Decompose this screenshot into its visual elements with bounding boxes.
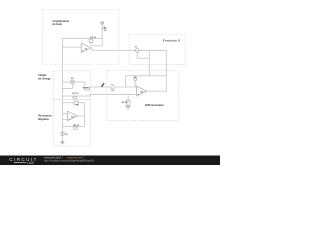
dashed enclosure box Differenciateur <box>107 70 178 120</box>
watermark line1 username <box>44 156 95 162</box>
resistor R2 <box>89 39 92 42</box>
resistor R7 <box>126 100 130 105</box>
label V3 <box>65 134 68 136</box>
logo CIRCUIT <box>9 157 37 162</box>
label C2 <box>76 105 80 107</box>
watermark bar <box>0 156 220 166</box>
label V2 <box>71 78 74 80</box>
wire top frame <box>126 75 167 77</box>
label V1 <box>135 46 138 48</box>
wire bus vertical <box>61 38 63 141</box>
wire loop below source <box>137 52 149 58</box>
wire B4 bottom <box>62 126 84 128</box>
dashed enclosure box Fonction V <box>129 34 185 64</box>
wire source right <box>139 50 166 52</box>
label R6 <box>134 77 138 79</box>
wire circle bottom stub <box>62 84 72 88</box>
capacitor C2 on B4 top <box>74 101 78 105</box>
wire pot stem <box>101 24 103 46</box>
wire op-amp1 output to V1 <box>91 48 135 50</box>
label Amplificateur de Gain <box>52 19 69 26</box>
op-amp U2 <box>68 111 78 121</box>
wire A cont. <box>114 86 137 88</box>
wire R2 stems <box>90 38 92 45</box>
dashed enclosure box Cellule de Charge <box>53 71 90 100</box>
capacitor C1 <box>112 88 114 90</box>
op-amp U1 <box>81 43 91 53</box>
op-amp U3 <box>137 86 147 96</box>
label R8 <box>73 125 80 127</box>
source V3 on bus <box>61 132 64 135</box>
source V2 load cell <box>70 80 74 84</box>
label R5 <box>73 93 80 95</box>
label pot value <box>104 28 108 32</box>
wire row1 right <box>74 82 85 88</box>
dashed enclosure box Resistance Negative <box>53 99 90 146</box>
label C1 <box>111 84 115 92</box>
wire op-amp2 output <box>77 115 84 117</box>
label R7 <box>122 102 129 104</box>
ground G1 <box>126 105 131 109</box>
wire feedback top B1 <box>62 37 102 39</box>
label Resistance Negative <box>38 114 52 122</box>
wire A to differentiator <box>89 86 112 88</box>
wire long drop from source into differentiator <box>148 51 150 76</box>
resistor R4 <box>85 88 90 90</box>
wire B4 top <box>62 103 84 127</box>
wire op-amp1 input <box>62 46 81 48</box>
ground arrow <box>60 142 64 145</box>
resistor R5 on row2 <box>73 96 77 98</box>
wire op-amp3 output and feedback <box>147 51 166 92</box>
wire pot bottom to output <box>91 45 102 47</box>
wire R6 stem <box>134 80 136 87</box>
node label flag <box>101 83 105 87</box>
dashed enclosure box Amplificateur de Gain <box>42 9 119 64</box>
function source V1 <box>135 49 139 53</box>
wire op-amp2 inputs <box>62 114 67 120</box>
svg-text:vanderpol oscil: vanderpol oscil <box>67 156 84 159</box>
label R4 <box>83 87 90 90</box>
node flag pot top <box>101 21 104 24</box>
differentiator input frame vertical <box>125 76 127 87</box>
wire plus stem to ground resistor <box>127 94 129 100</box>
resistor R6 below wire <box>134 78 137 80</box>
logo LAB line <box>14 161 26 164</box>
label R2 value <box>90 37 97 39</box>
potentiometer arrow <box>101 27 105 31</box>
wire row2 / wire B <box>62 94 136 96</box>
resistor R8 on B4 bottom <box>74 127 77 129</box>
wire row1 left <box>62 81 70 83</box>
label Cellule de Charge <box>38 73 51 81</box>
